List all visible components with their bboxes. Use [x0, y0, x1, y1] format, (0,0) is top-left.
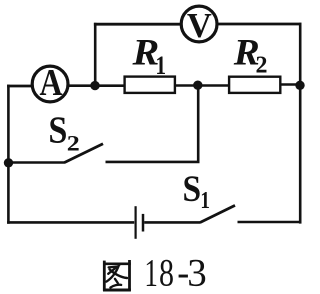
resistor R2 — [229, 31, 280, 93]
wire bottom segment left rail to battery — [7, 221, 134, 224]
wire right rail vertical — [299, 23, 302, 224]
wire R1 to R2 — [175, 84, 229, 87]
wire S2 branch left segment — [7, 161, 65, 164]
svg-text:S: S — [48, 110, 67, 152]
node junction dot between R1 and R2 — [193, 81, 202, 90]
wire voltmeter branch vertical — [94, 23, 97, 86]
svg-text:1: 1 — [155, 51, 166, 80]
node junction dot on right rail — [295, 81, 304, 90]
svg-text:2: 2 — [67, 130, 80, 155]
wire switch S1 to bottom right corner — [238, 221, 302, 224]
wire battery to switch S1 — [144, 221, 201, 224]
resistor R1 — [125, 32, 175, 93]
wire left rail vertical — [7, 85, 10, 224]
ammeter A — [32, 62, 68, 104]
switch S1 — [183, 169, 236, 222]
caption character 图 (drawn glyph) — [103, 260, 131, 291]
wire ammeter to resistor R1 — [69, 84, 126, 87]
wire top segment from voltmeter to right rail — [217, 23, 302, 26]
wire middle branch vertical below R1-R2 node — [197, 85, 200, 162]
caption text 18-3 — [144, 251, 206, 294]
voltmeter U1 (V) — [181, 6, 217, 45]
svg-text:V: V — [187, 7, 212, 45]
svg-text:8: 8 — [159, 251, 174, 294]
svg-text:3: 3 — [187, 251, 207, 294]
svg-text:2: 2 — [256, 52, 268, 78]
wire R2 to right rail — [280, 83, 300, 86]
node junction dot on left rail at S2 branch — [4, 158, 13, 167]
node junction dot at voltmeter branch — [90, 81, 99, 90]
wire left rail top corner to ammeter — [7, 85, 32, 88]
switch S2 — [48, 110, 103, 163]
svg-text:S: S — [183, 169, 202, 210]
wire S2 branch right contact segment — [106, 161, 200, 164]
wire top segment from node column to voltmeter — [94, 23, 181, 26]
svg-text:1: 1 — [144, 251, 158, 294]
battery cell: long positive plate — [135, 206, 137, 239]
battery cell: short negative plate — [142, 214, 145, 232]
svg-text:1: 1 — [200, 188, 210, 214]
svg-text:A: A — [40, 62, 63, 104]
